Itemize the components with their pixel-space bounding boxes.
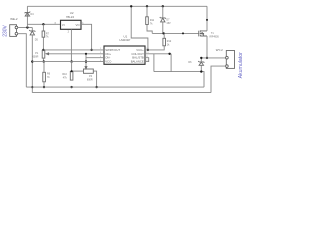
wire P1 bottom to rail M [42,58,44,62]
wire R7 bottom to P1 top [42,37,44,50]
wire loop left vertical [153,54,155,72]
node junction gnd on rail M [70,60,72,62]
wire R11 top [146,6,148,16]
node junction D5 column on rail1 [31,86,33,88]
resistor R10 [70,72,73,81]
wire regulator input rail [27,23,60,25]
wire pin3 down to P4 wiper [85,54,87,69]
wire source column down [206,36,208,58]
zener diode D7 [160,17,166,22]
wire connector pin2 down [18,34,27,87]
node junction P1 bottom rail M [43,60,45,62]
wire R12 bottom to pin1R [145,46,164,50]
node junction source output [206,57,208,59]
IC U2 78L24 box [61,20,82,29]
node junction D6 top [200,57,202,59]
resistor R7 [42,31,45,37]
wire D7 top [162,6,164,17]
IC U1 box [104,46,145,64]
node junction VI rail at R7 [42,23,44,25]
node junction top rail U1 column [130,5,132,7]
wire P4 right lead down [93,71,96,87]
wire U1 pin4R stub and tie [145,58,149,62]
wire R10 column [71,62,73,72]
node junction R6 on rail1 [43,86,45,88]
wire output minus run [154,72,204,88]
potentiometer P1 [42,50,45,58]
wire U2 output [81,24,92,50]
resistor R6 [43,72,46,82]
node junction pin2R corner [168,53,170,55]
node junction U2 out to pin1L [90,49,92,51]
node junction top rail D7 [162,5,164,7]
node junction pin3 column on pin2 wire [85,53,87,55]
gate rail wire [152,32,198,34]
bottom rail1 [26,86,204,88]
svg-text:WY-2: WY-2 [216,48,223,52]
top rail wire [27,5,207,7]
node junction top rail R11 [146,5,148,7]
node junction R12 on gate rail [162,32,164,34]
svg-text:600R: 600R [33,55,39,58]
svg-text:LM231P: LM231P [120,38,131,42]
wire U1 pin1 left rail [43,49,104,51]
wire D7 bottom to gate rail [162,22,164,34]
P4 wiper arrow [85,67,87,69]
wire R6 top [43,62,45,73]
svg-text:WE-2: WE-2 [10,17,18,21]
node junction pin3 column on rail M [85,60,87,62]
resistor R12 [163,38,166,46]
wire U1 pin2 left to P1 wiper [48,53,104,55]
svg-text:R10: R10 [62,73,67,76]
wire P4 left lead [72,70,84,72]
node junction pin1L rail at P1 top [42,49,44,51]
wire R6 bottom [43,82,45,87]
wire U2 ground column [70,29,72,61]
node junction gate rail mid [182,32,184,34]
svg-text:IRF4905: IRF4905 [210,35,220,38]
wire D5 column down to rail2 [31,35,33,93]
wire R7 top [42,24,44,31]
wire connector pin1 to D4/D5 columns [18,27,33,29]
wire R12 top [163,33,165,38]
node junction drain column [206,19,208,21]
wire U1 top supply column [131,6,148,50]
node junction P4 right on rail1 [95,86,97,88]
resistor R11 [146,17,149,25]
wire D6 top [200,58,202,62]
P1 wiper arrow [46,53,48,55]
svg-text:VI: VI [62,23,65,27]
transistor T1 IRF4905 [198,30,207,36]
svg-text:Akumulator: Akumulator [238,52,244,79]
node junction P4 left on R10 column [71,70,73,72]
pin numbers U1 [100,48,149,62]
svg-text:600R: 600R [87,79,93,82]
node junction rail M left end [31,60,33,62]
zener diode D5 [29,30,35,35]
wire D6 bottom [200,65,202,71]
bottom rail2 [32,92,211,94]
node junction D6 bottom [200,70,202,72]
svg-text:15V: 15V [166,22,171,25]
svg-text:230V: 230V [2,24,8,36]
node junction R10 on rail1 [70,86,72,88]
rail M (VCC- rail) [32,61,104,63]
wire D5 column top [31,28,33,31]
wire drain column from top rail [206,6,208,31]
svg-text:BALANCE: BALANCE [131,60,144,64]
potentiometer P4 [84,69,94,73]
zener diode D6 [198,61,204,65]
wire loop right vertical [170,54,172,72]
svg-text:78L24: 78L24 [66,15,74,19]
wire D4 column [26,6,28,27]
svg-text:VCC-: VCC- [105,60,112,64]
wire U1 pin3 left [86,57,104,59]
connector WY-2 battery [226,51,235,69]
wire R11 bottom to gate rail [147,25,152,34]
node junction VCC+ feed on pin1R wire [147,49,149,51]
wire battery minus [211,66,226,93]
connector WE-2 [10,25,18,37]
wire output plus to connector [201,57,225,59]
diode D4 [25,11,30,16]
node junction at D4 column [26,26,28,28]
wire U1 pin2R top edge [145,53,171,55]
